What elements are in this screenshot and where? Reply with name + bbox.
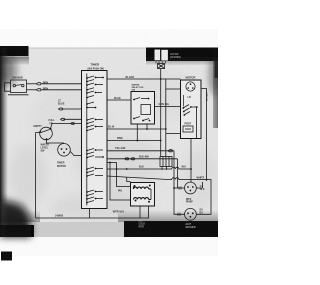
svg-text:YELLOW: YELLOW: [115, 147, 126, 150]
svg-text:HOT: HOT: [139, 220, 144, 222]
recirc pump internals: [187, 212, 194, 217]
wire into motor y89: [166, 88, 181, 90]
pressure switch terminals: [39, 128, 51, 141]
timer label T103: [88, 63, 105, 71]
motor winding wire: [182, 95, 184, 107]
wire timer to selector BLUE: [107, 99, 131, 101]
timer motor internals: [61, 148, 68, 153]
wire splice1 to timer: [41, 83, 81, 85]
selector switch box: [131, 92, 155, 125]
label GU BU: [200, 210, 204, 215]
top-left corner black block: [0, 46, 29, 56]
svg-text:GRN-YEL: GRN-YEL: [159, 103, 170, 106]
pressure switch circle: [40, 127, 53, 140]
motor start switch contacts: [183, 105, 197, 116]
wire PS bottom to timer motor: [47, 140, 65, 143]
bottom left dark strip: [0, 225, 34, 237]
svg-text:BLK-WH: BLK-WH: [139, 155, 149, 158]
svg-text:GY: GY: [200, 186, 204, 188]
svg-text:LID SW: LID SW: [170, 53, 179, 56]
pump1 left connector: [179, 187, 181, 190]
motor circle: [186, 82, 195, 91]
svg-text:WTR: WTR: [139, 226, 145, 228]
svg-text:WATER: WATER: [132, 83, 140, 86]
lid switch connector: [158, 64, 165, 69]
power cord label: [12, 77, 24, 80]
yellow splice: [168, 150, 173, 152]
motor bottom drop to pump1: [190, 139, 192, 183]
right tail under top-right black: [215, 61, 219, 78]
valve coil 2: [134, 198, 152, 200]
wire from cord to splice 1: [27, 83, 37, 85]
svg-text:PUMP: PUMP: [186, 202, 193, 204]
timer internal bus: [86, 74, 88, 206]
svg-text:3-8062: 3-8062: [55, 213, 64, 217]
selector switch label: [132, 83, 144, 91]
valve feed vertical 2: [117, 163, 131, 187]
pump2 left connector: [178, 213, 180, 216]
junction pump1 left: [173, 187, 175, 189]
timer contact cluster 1: [87, 76, 103, 85]
left rail vertical: [35, 133, 37, 219]
drain pump right terminal: [196, 187, 202, 189]
power cord underline: [8, 94, 29, 96]
svg-text:GRN-YEL: GRN-YEL: [205, 92, 207, 103]
valve coil 1: [134, 187, 152, 190]
wire splice2 to timer: [41, 89, 81, 91]
left edge vignette: [0, 48, 8, 237]
drain pump label: [186, 199, 193, 204]
junction lid/black: [160, 78, 162, 80]
wire y169 to pump1: [107, 167, 191, 169]
wire timer to motor BLACK: [107, 78, 181, 80]
grain noise: [0, 48, 218, 237]
selector drop 2: [136, 124, 138, 141]
selector inner box: [141, 105, 151, 115]
wire splice2 to timer: [64, 118, 82, 120]
pump1 right up to white: [202, 182, 204, 188]
faint top edge line: [28, 47, 147, 49]
lt blue splice: [59, 108, 63, 110]
svg-text:PINK: PINK: [117, 137, 123, 140]
timer contact cluster 7: [87, 190, 103, 203]
svg-text:BL-W: BL-W: [108, 126, 115, 129]
recirc pump label in band: [186, 223, 196, 229]
wire timer PINK: [107, 140, 161, 142]
motor right exit wire: [201, 89, 207, 181]
connector block: [160, 157, 172, 167]
selector drop 1: [146, 124, 148, 129]
pump1 feed left: [174, 187, 185, 189]
label FULL: [49, 119, 56, 125]
wire timer motor to timer: [70, 152, 81, 156]
top band shadow: [0, 57, 29, 65]
timer motor label: [57, 162, 66, 168]
bottom rail: [36, 217, 150, 219]
wire timer BLK-WH: [107, 158, 178, 160]
svg-text:TIMER: TIMER: [91, 63, 100, 67]
water valve box: [131, 183, 155, 207]
svg-text:PROT: PROT: [185, 123, 192, 126]
page background: [0, 0, 218, 285]
svg-text:EMPTY: EMPTY: [34, 125, 43, 128]
motor circle terminals: [187, 83, 193, 88]
top-right black section: [146, 48, 218, 62]
svg-text:BLK: BLK: [200, 189, 205, 191]
power cord box: [11, 80, 27, 93]
protector internal: [185, 128, 191, 130]
motor box: [181, 80, 202, 139]
bottom black band right section: [124, 221, 218, 237]
schematic ink: [5, 61, 212, 220]
valve sub label in band: [139, 220, 146, 228]
wire lid connector down: [160, 69, 162, 157]
wire PS left to left rail: [36, 132, 41, 134]
motor internal wire right: [196, 107, 198, 139]
timer box: [82, 71, 108, 209]
svg-text:(VENTED): (VENTED): [170, 57, 181, 59]
splice connector 1: [36, 83, 41, 85]
wire lt blue to timer: [62, 108, 82, 110]
svg-text:COLD: COLD: [139, 223, 146, 225]
svg-text:BLUE: BLUE: [114, 97, 121, 100]
motor protector box: [183, 126, 193, 132]
wire y162.5: [107, 162, 117, 164]
wire from cord to splice 2: [27, 89, 37, 91]
timer contact cluster 4: [87, 118, 103, 131]
svg-text:BLK: BLK: [139, 165, 144, 168]
timer contact pair 3: [87, 102, 95, 108]
wire timer YELLOW: [107, 150, 174, 152]
svg-text:AGIT: AGIT: [186, 223, 192, 226]
svg-text:WASHER: WASHER: [186, 226, 196, 229]
power cord switch link: [16, 84, 22, 87]
second vertical right: [165, 79, 167, 157]
lid switch box stubs: [156, 61, 165, 63]
water level sw label: [41, 144, 50, 153]
label LT BLUE: [58, 99, 65, 105]
timer motor circle: [58, 144, 71, 157]
valve bottom drop 1: [139, 206, 141, 218]
splice connector 2: [36, 89, 41, 91]
selector contacts: [134, 98, 149, 121]
lid switch white box right half: [161, 50, 168, 61]
bottom-left black corner blob: [0, 54, 222, 237]
bottom band shadow: [118, 210, 218, 222]
lid switch label on band: [170, 53, 181, 59]
recirc pump circle: [185, 208, 197, 220]
svg-text:MOTOR: MOTOR: [57, 165, 66, 168]
connector block stubs: [161, 167, 163, 170]
pressure switch arm: [41, 130, 50, 133]
yellow vertical to pump2: [174, 151, 185, 215]
valve internal wire: [150, 189, 152, 200]
svg-text:BLUE: BLUE: [58, 103, 65, 106]
splice wire 2: [61, 118, 65, 120]
lid switch white box left half: [155, 50, 161, 61]
svg-text:PIN: PIN: [118, 190, 122, 192]
svg-text:BLACK: BLACK: [126, 76, 135, 79]
valve bottom drop 2: [148, 206, 150, 218]
wire timer BL-W: [107, 128, 166, 130]
svg-text:LR: LR: [188, 96, 191, 99]
splice on PS wire: [71, 123, 75, 125]
drain pump internals: [187, 186, 194, 191]
timer bottom drop: [89, 209, 91, 219]
wire selector to motor: [155, 106, 181, 108]
label GY BLK: [200, 186, 205, 191]
photo area field: [0, 48, 218, 237]
timer contact cluster 2: [87, 88, 102, 98]
drain pump circle: [185, 182, 197, 194]
right edge vignette: [213, 48, 218, 128]
wire into motor y133.5: [166, 133, 181, 135]
svg-text:MOTOR: MOTOR: [186, 75, 196, 79]
wire PS top to timer: [51, 124, 82, 129]
junction grnyel rail: [206, 179, 208, 181]
gray photocopy washes: [10, 70, 220, 220]
blk-wh splices: [125, 158, 129, 160]
bottom middle gray gap: [34, 222, 124, 237]
timer contact cluster 6: [87, 167, 103, 176]
valve feed vertical 3: [127, 177, 131, 182]
blk-wh vertical to pump1: [177, 159, 179, 188]
svg-text:WTR: WTR: [186, 199, 192, 201]
svg-text:WH: WH: [182, 166, 186, 169]
power cord terminals: [13, 84, 24, 86]
power cord plug prongs: [5, 83, 11, 91]
bottom margin black bar: [1, 252, 12, 261]
timer contact cluster 5: [87, 149, 103, 158]
valve feed vertical 1: [110, 163, 131, 201]
wire y176 to pump2: [107, 176, 211, 214]
